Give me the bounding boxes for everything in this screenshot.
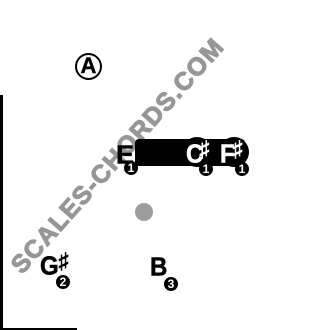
note label C# bbox=[186, 142, 209, 168]
finger 2 badge on G# bbox=[56, 275, 70, 289]
barre bar (index finger across strings) bbox=[135, 139, 245, 166]
note label G# bbox=[40, 254, 69, 280]
note label E bbox=[116, 143, 134, 169]
wire: left edge vertical line bbox=[0, 95, 3, 330]
watermark SCALES-CHORDS.COM bbox=[0, 0, 255, 330]
open note A bbox=[75, 53, 102, 80]
finger 3 badge on B bbox=[164, 277, 178, 291]
fretted note F# circle bbox=[219, 137, 249, 167]
note label F# bbox=[220, 142, 243, 168]
fret marker inlay dot bbox=[135, 203, 153, 221]
fretted note C# circle bbox=[182, 137, 212, 167]
wire: bottom edge segment bbox=[0, 328, 77, 330]
finger 1 badge on E bbox=[124, 161, 138, 175]
finger 1 badge on C# bbox=[199, 162, 213, 176]
finger 1 badge on F# bbox=[235, 162, 249, 176]
note label B bbox=[150, 255, 167, 281]
